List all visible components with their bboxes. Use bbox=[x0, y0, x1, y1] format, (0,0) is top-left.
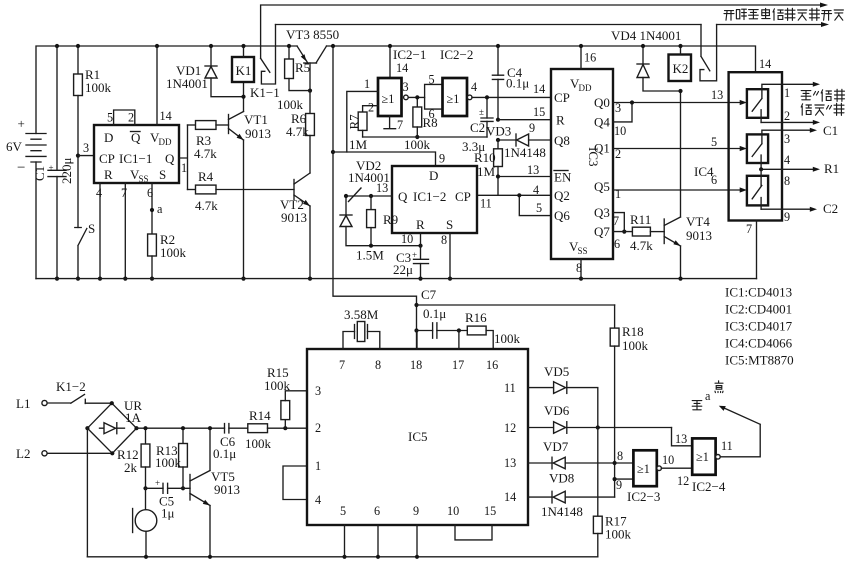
wire: IC5 pin 6 to ground bbox=[377, 525, 379, 557]
relay contact K1-2 bbox=[56, 379, 86, 403]
resistor R8 100k bbox=[404, 97, 438, 152]
relay contact K1-1 bbox=[250, 25, 280, 101]
svg-text:1: 1 bbox=[615, 187, 621, 201]
svg-text:9: 9 bbox=[439, 152, 445, 166]
wire: branch to IC3 Q6 pin5 bbox=[519, 195, 551, 215]
wire: sw3 pin 9 out to C2 bbox=[761, 208, 810, 210]
phone line A (top) with arrow bbox=[261, 5, 820, 58]
wire: IC4 pin 7 to ground bbox=[756, 221, 758, 279]
svg-text:VD7: VD7 bbox=[543, 439, 569, 454]
svg-text:CP: CP bbox=[455, 189, 471, 204]
svg-text:DD: DD bbox=[159, 137, 172, 147]
junction dot VT4 emitter/ground bbox=[678, 277, 682, 281]
terminal L2 bbox=[16, 446, 47, 461]
svg-text:4: 4 bbox=[315, 493, 321, 507]
transistor VT3 8550 bbox=[286, 27, 339, 91]
relay coil K2 bbox=[669, 46, 692, 81]
svg-text:1μ: 1μ bbox=[161, 506, 175, 521]
junction dots bridge corners bbox=[110, 401, 114, 405]
junction dot VD7/R18 bbox=[613, 461, 617, 465]
svg-text:0.1μ: 0.1μ bbox=[423, 306, 446, 321]
wire: IC1-1 pin 6 bbox=[151, 183, 153, 234]
svg-text:14: 14 bbox=[759, 57, 771, 71]
wire: K1-2 to bridge bbox=[85, 402, 112, 404]
svg-text:R9: R9 bbox=[383, 212, 398, 227]
analog switch IC4 bbox=[729, 72, 782, 220]
svg-text:9: 9 bbox=[529, 121, 535, 135]
svg-text:IC5: IC5 bbox=[408, 429, 428, 444]
parts list bbox=[725, 285, 794, 368]
wire: IC2-2 output to IC3 CP pin 14 bbox=[472, 96, 551, 98]
wire: L1 to K1-2 bbox=[47, 402, 71, 404]
svg-text:SS: SS bbox=[139, 174, 149, 184]
svg-text:1N4001: 1N4001 bbox=[166, 76, 208, 91]
junction dot VT5 collector bbox=[208, 426, 212, 430]
svg-text:10: 10 bbox=[447, 504, 459, 518]
svg-text:R14: R14 bbox=[249, 408, 271, 423]
junction dot VD1/K1 bbox=[241, 95, 245, 99]
terminal L1 bbox=[16, 396, 47, 411]
svg-text:11: 11 bbox=[504, 381, 516, 395]
svg-text:9013: 9013 bbox=[245, 126, 271, 141]
wire: IC1-2 CP pin11 to IC3 Q2 pin4 bbox=[477, 194, 551, 196]
svg-text:13: 13 bbox=[675, 432, 687, 446]
svg-text:IC5:MT8870: IC5:MT8870 bbox=[725, 353, 794, 368]
svg-text:K1−2: K1−2 bbox=[56, 379, 86, 394]
junction dot K2/rail bbox=[678, 44, 682, 48]
wire: IC2-4 output to point a (arrow) bbox=[720, 408, 760, 457]
svg-text:S: S bbox=[446, 217, 453, 232]
svg-text:5: 5 bbox=[711, 135, 717, 149]
svg-text:14: 14 bbox=[533, 82, 545, 96]
wire: IC1-1 pin 14 to rail bbox=[156, 46, 158, 125]
svg-text:4.7k: 4.7k bbox=[286, 124, 309, 139]
svg-text:VD3: VD3 bbox=[486, 124, 511, 139]
junction dot sw2/sw3 tie bbox=[759, 167, 763, 171]
resistor R4 4.7k bbox=[188, 169, 295, 213]
svg-text:R7: R7 bbox=[347, 114, 362, 130]
svg-text:1: 1 bbox=[181, 161, 187, 175]
junction dot VD3/R10 line bbox=[496, 138, 500, 142]
junction dot C4/rail bbox=[496, 44, 500, 48]
wire: IC5 pin 17 bbox=[458, 331, 460, 350]
switch S bbox=[75, 221, 95, 279]
gate IC2-3 bbox=[627, 450, 661, 504]
capacitor C5 1u electrolytic bbox=[146, 478, 191, 521]
diode VD8 bbox=[528, 471, 615, 520]
label leader slash VD2 bbox=[349, 188, 362, 202]
svg-text:100k: 100k bbox=[494, 331, 521, 346]
svg-text:7: 7 bbox=[339, 358, 345, 372]
junction dot R8 bottom bbox=[415, 135, 419, 139]
svg-text:3.58M: 3.58M bbox=[344, 307, 379, 322]
junction dot R12 bottom node bbox=[143, 486, 147, 490]
svg-text:5: 5 bbox=[340, 504, 346, 518]
svg-text:R4: R4 bbox=[198, 169, 214, 184]
switch S1 of IC4 bbox=[747, 89, 768, 122]
svg-text:IC2−2: IC2−2 bbox=[440, 47, 473, 62]
junction dot feed/rail bbox=[331, 44, 335, 48]
wire: switched +V rail (VT3 collector to IC4 pin14) bbox=[327, 46, 756, 72]
svg-text:2: 2 bbox=[368, 101, 374, 115]
resistor R11 4.7k bbox=[630, 212, 664, 253]
svg-text:IC4:CD4066: IC4:CD4066 bbox=[725, 336, 793, 351]
svg-text:11: 11 bbox=[721, 439, 733, 453]
wire: Q1 pin 2 to IC4 sw2 control bbox=[613, 148, 741, 150]
wire: IC2-3 out to IC2-4 pin 12 bbox=[661, 467, 692, 469]
junction dot feed/305 line bbox=[414, 303, 418, 307]
wire: IC3 R pin 15 bbox=[498, 119, 551, 121]
svg-text:R: R bbox=[556, 113, 565, 128]
svg-text:IC2−1: IC2−1 bbox=[393, 47, 426, 62]
junction dot EN line bbox=[496, 174, 500, 178]
svg-text:9: 9 bbox=[616, 478, 622, 492]
resistor R6 4.7k bbox=[286, 91, 314, 173]
wire: IC1-1 pins 5-2 loop bbox=[114, 110, 135, 125]
svg-text:±: ± bbox=[479, 107, 484, 117]
wire: IC1-1 Q output pin 1 bbox=[179, 125, 188, 190]
svg-text:VD4 1N4001: VD4 1N4001 bbox=[611, 28, 681, 43]
junction dot VD5/VD6 bbox=[596, 425, 600, 429]
wire: Q7 pin 6 bbox=[613, 231, 632, 233]
svg-text:VD8: VD8 bbox=[549, 471, 574, 486]
svg-text:4.7k: 4.7k bbox=[195, 198, 218, 213]
svg-text:15: 15 bbox=[484, 504, 496, 518]
svg-text:7: 7 bbox=[613, 214, 619, 228]
svg-text:R: R bbox=[416, 217, 425, 232]
svg-text:K2: K2 bbox=[673, 61, 689, 76]
resistor R18 100k bbox=[610, 305, 648, 497]
junction dot VD4/K2 bbox=[678, 89, 682, 93]
svg-text:1N4148: 1N4148 bbox=[504, 145, 546, 160]
svg-text:C2: C2 bbox=[470, 120, 485, 135]
svg-text:9: 9 bbox=[784, 210, 790, 224]
junction dot VD2 line / R pin bbox=[418, 244, 422, 248]
junction dot pin9 bbox=[613, 477, 617, 481]
svg-text:6: 6 bbox=[374, 504, 380, 518]
svg-text:Q7: Q7 bbox=[594, 224, 610, 239]
resistor R16 100k bbox=[465, 310, 521, 349]
wire: Q3 pin 7 join bbox=[613, 213, 624, 232]
svg-text:2: 2 bbox=[784, 109, 790, 123]
svg-text:Q4: Q4 bbox=[594, 115, 610, 130]
resistor R1 100k bbox=[74, 46, 112, 228]
counter IC3 bbox=[551, 69, 613, 259]
svg-text:8: 8 bbox=[441, 233, 447, 247]
svg-text:11: 11 bbox=[480, 197, 492, 211]
svg-text:5: 5 bbox=[429, 73, 435, 87]
svg-text:≥1: ≥1 bbox=[382, 92, 395, 106]
svg-text:CP: CP bbox=[554, 90, 570, 105]
diode VD7 bbox=[528, 439, 633, 469]
resistor R7 1M bbox=[347, 112, 368, 152]
svg-text:EN: EN bbox=[554, 170, 572, 185]
svg-text:a: a bbox=[705, 389, 711, 403]
wire: sw2 pin 4 out to R1 bbox=[761, 168, 813, 170]
diode VD3 1N4148 bbox=[486, 124, 551, 161]
wire: IC5 pins 1-4 loop bbox=[283, 466, 307, 500]
svg-text:a: a bbox=[157, 202, 163, 216]
wire: Q4 pin 10 join bbox=[613, 103, 632, 122]
text: to point a bbox=[692, 381, 723, 410]
diode VD4 bbox=[637, 46, 681, 91]
svg-text:4: 4 bbox=[96, 186, 102, 200]
svg-text:4.7k: 4.7k bbox=[194, 146, 217, 161]
transistor VT4 9013 bbox=[664, 91, 712, 279]
svg-text:D: D bbox=[104, 130, 113, 145]
wire: Q5 pin 1 to IC4 sw3 control bbox=[613, 189, 741, 191]
svg-text:9013: 9013 bbox=[214, 482, 240, 497]
wire: IC2-3 pin 9 input bbox=[615, 478, 634, 480]
diode VD2 1N4001 bbox=[340, 158, 421, 246]
transistor VT5 9013 bbox=[190, 428, 240, 557]
gate IC2-1 (CD4001 NOR) bbox=[378, 78, 408, 116]
svg-text:13: 13 bbox=[527, 163, 539, 177]
svg-text:8: 8 bbox=[375, 358, 381, 372]
capacitor C1 220u electrolytic bbox=[32, 46, 74, 279]
diode VD1 1N4001 bbox=[166, 46, 244, 97]
wire: sw2 pin 3 out to C1 bbox=[762, 130, 810, 134]
svg-text:4: 4 bbox=[471, 80, 477, 94]
junction dot R9 top bbox=[369, 194, 373, 198]
svg-text:+: + bbox=[412, 250, 417, 260]
svg-text:8: 8 bbox=[617, 449, 623, 463]
svg-text:IC2−4: IC2−4 bbox=[692, 479, 726, 494]
svg-text:1: 1 bbox=[364, 77, 370, 91]
svg-text:16: 16 bbox=[486, 358, 498, 372]
junction dot R13 bottom bbox=[181, 486, 185, 490]
junction dot R9 bottom bbox=[369, 244, 373, 248]
svg-text:8: 8 bbox=[576, 261, 582, 275]
wire: bridge minus to ground bus bbox=[86, 428, 88, 557]
svg-text:D: D bbox=[429, 168, 438, 183]
svg-text:VD5: VD5 bbox=[544, 364, 569, 379]
svg-text:C1: C1 bbox=[823, 123, 838, 138]
junction dot pin17/C7 line bbox=[457, 328, 461, 332]
resistor R9 1.5M bbox=[356, 196, 398, 263]
svg-text:+: + bbox=[18, 116, 25, 131]
svg-text:6V: 6V bbox=[6, 139, 23, 154]
wire: IC5 pin 5 to ground bbox=[344, 525, 346, 557]
svg-text:4: 4 bbox=[784, 153, 790, 167]
svg-text:1: 1 bbox=[784, 86, 790, 100]
svg-text:IC2:CD4001: IC2:CD4001 bbox=[725, 302, 792, 317]
junction dot C3/ground bbox=[418, 277, 422, 281]
svg-text:0.1μ: 0.1μ bbox=[213, 446, 236, 461]
capacitor C2 3.3u electrolytic bbox=[462, 97, 493, 154]
svg-text:R1: R1 bbox=[824, 161, 839, 176]
svg-text:5: 5 bbox=[536, 201, 542, 215]
wire: sw1 pin 1 out bbox=[762, 84, 813, 89]
wire: IC1-1 pin 7 to ground bbox=[124, 183, 126, 279]
svg-text:4.7k: 4.7k bbox=[630, 238, 653, 253]
junction dot C1/rail bbox=[55, 44, 59, 48]
switch S2 of IC4 bbox=[747, 134, 768, 169]
battery GB 6V bbox=[6, 116, 46, 279]
wire: bottom ground bus bbox=[87, 556, 597, 558]
gate IC2-4 bbox=[692, 438, 726, 494]
svg-text:100k: 100k bbox=[160, 245, 187, 260]
wire: R18 pull line bbox=[417, 304, 615, 306]
svg-text:≥1: ≥1 bbox=[637, 462, 650, 476]
wire: IC5 pins 10-15 loop bbox=[455, 525, 492, 540]
wire: IC1-1 pin 4 to ground bbox=[99, 183, 101, 279]
svg-text:6: 6 bbox=[429, 107, 435, 121]
svg-text:10: 10 bbox=[662, 453, 674, 467]
svg-text:1.5M: 1.5M bbox=[356, 248, 384, 263]
svg-text:2: 2 bbox=[128, 111, 134, 125]
svg-text:Q: Q bbox=[398, 189, 408, 204]
junction dot R1/rail bbox=[76, 44, 80, 48]
junction dot pin14/rail bbox=[155, 44, 159, 48]
wire: IC2-1 pin 1 input bbox=[347, 91, 378, 152]
svg-text:100k: 100k bbox=[622, 338, 649, 353]
resistor R10 1M bbox=[474, 140, 502, 195]
junction dot mic/ground bbox=[144, 555, 148, 559]
diode VD6 bbox=[528, 403, 672, 433]
svg-text:Q1: Q1 bbox=[594, 141, 610, 156]
crystal 3.58M bbox=[343, 307, 380, 349]
svg-text:220μ: 220μ bbox=[59, 158, 74, 185]
junction dot VD1/rail bbox=[209, 44, 213, 48]
transistor VT1 9013 bbox=[229, 82, 272, 279]
svg-text:+: + bbox=[49, 163, 54, 173]
svg-text:100k: 100k bbox=[605, 527, 632, 542]
wire: IC2-2 input fork pins 5,6 bbox=[425, 84, 443, 109]
wire: Q0 pin 3 to IC4 sw1 control bbox=[613, 102, 741, 104]
junction dot VT1 emitter/ground bbox=[241, 277, 245, 281]
wire: bridge plus rail bbox=[137, 427, 225, 429]
svg-text:SS: SS bbox=[578, 246, 588, 256]
wire: VDD feed to lower section bbox=[333, 46, 417, 349]
gate IC2-2 (CD4001 NOR) bbox=[443, 78, 473, 116]
svg-text:7: 7 bbox=[397, 118, 403, 132]
switch S3 of IC4 bbox=[747, 169, 768, 209]
svg-text:100k: 100k bbox=[85, 80, 112, 95]
junction dot feed/IC2-1 pin1 line bbox=[331, 150, 335, 154]
wire: IC1-1 pin 3 (CP) bbox=[78, 155, 94, 157]
wire: 0V bus bbox=[36, 278, 757, 280]
junction dot VD4/rail bbox=[641, 44, 645, 48]
junction dot R1/CP wire bbox=[76, 154, 80, 158]
svg-text:18: 18 bbox=[410, 358, 422, 372]
svg-text:0.1μ: 0.1μ bbox=[506, 76, 529, 91]
svg-text:L1: L1 bbox=[16, 396, 30, 411]
relay coil K1 bbox=[232, 46, 254, 82]
wire: IC3 EN pin 13 bbox=[498, 176, 551, 178]
junction dot R8 top bbox=[415, 95, 419, 99]
wire: +6V left rail (battery + to VT3 emitter) bbox=[36, 46, 297, 134]
flip-flop IC1-1 (CD4013) bbox=[94, 125, 179, 184]
svg-text:2k: 2k bbox=[124, 460, 138, 475]
svg-text:C7: C7 bbox=[421, 287, 437, 302]
junction dot R5/VT3 base bbox=[308, 89, 312, 93]
relay contact K2-1 bbox=[700, 25, 717, 81]
wire: D pin 9 net from VDD feed bbox=[333, 152, 436, 166]
svg-text:Q3: Q3 bbox=[594, 205, 610, 220]
DTMF decoder IC5 bbox=[307, 349, 528, 525]
junction dot feed/C7 line bbox=[414, 328, 418, 332]
svg-text:IC1−2: IC1−2 bbox=[413, 189, 446, 204]
svg-text:IC4: IC4 bbox=[694, 164, 714, 179]
svg-text:15: 15 bbox=[533, 105, 545, 119]
transistor VT2 9013 bbox=[280, 173, 310, 279]
resistor R2 100k bbox=[148, 232, 187, 279]
phone line C (K2-1 to hook switch) with arrow bbox=[717, 24, 821, 26]
text: connect in parallel to telephone hook switch bbox=[724, 8, 843, 20]
svg-text:2: 2 bbox=[615, 147, 621, 161]
svg-text:3: 3 bbox=[403, 80, 409, 94]
svg-text:C2: C2 bbox=[823, 201, 838, 216]
svg-text:VT3 8550: VT3 8550 bbox=[286, 27, 339, 42]
svg-text:R18: R18 bbox=[622, 324, 644, 339]
resistor R14 100k bbox=[245, 408, 307, 451]
svg-text:13: 13 bbox=[711, 88, 723, 102]
junction dot C2 top bbox=[485, 95, 489, 99]
svg-text:+: + bbox=[155, 478, 160, 488]
node a bbox=[150, 202, 163, 216]
capacitor C4 0.1u bbox=[492, 46, 529, 120]
svg-text:9013: 9013 bbox=[281, 210, 307, 225]
svg-text:3: 3 bbox=[784, 132, 790, 146]
svg-text:1N4001: 1N4001 bbox=[348, 170, 390, 185]
bridge rectifier UR 1A bbox=[87, 398, 142, 453]
svg-text:VT1: VT1 bbox=[244, 112, 268, 127]
svg-text:R: R bbox=[104, 167, 113, 182]
resistor R12 2k bbox=[117, 428, 150, 488]
svg-text:4: 4 bbox=[533, 183, 539, 197]
wire: IC2-1 out to IC2-2 in bbox=[408, 96, 424, 98]
svg-text:S: S bbox=[88, 221, 95, 236]
svg-text:Q6: Q6 bbox=[554, 208, 570, 223]
svg-text:7: 7 bbox=[746, 222, 752, 236]
wire: oscillator RC line bbox=[363, 136, 487, 138]
wire: IC2-1 pin 2 input bbox=[363, 106, 378, 112]
wire: IC5 pin 9 to ground bbox=[416, 525, 418, 557]
svg-text:100k: 100k bbox=[245, 436, 272, 451]
svg-text:100k: 100k bbox=[277, 97, 304, 112]
svg-text:100k: 100k bbox=[155, 455, 182, 470]
svg-text:100k: 100k bbox=[404, 137, 431, 152]
svg-text:IC1−1: IC1−1 bbox=[119, 151, 152, 166]
junction dot C4/R line bbox=[496, 118, 500, 122]
resistor R3 4.7k bbox=[188, 121, 229, 161]
svg-text:100k: 100k bbox=[264, 378, 291, 393]
resistor R15 100k bbox=[264, 365, 307, 428]
svg-text:1M: 1M bbox=[477, 164, 496, 179]
svg-text:CP: CP bbox=[99, 151, 115, 166]
svg-text:R10: R10 bbox=[474, 150, 496, 165]
svg-text:L2: L2 bbox=[16, 446, 30, 461]
svg-text:S: S bbox=[159, 167, 166, 182]
text: to "abbreviated-dial recall" key bbox=[801, 89, 844, 115]
junction dot R14/R15 node bbox=[283, 426, 287, 430]
svg-text:17: 17 bbox=[452, 358, 464, 372]
microphone BM bbox=[133, 488, 157, 557]
junction dot VD2/Q line bbox=[344, 194, 348, 198]
svg-text:3: 3 bbox=[315, 384, 321, 398]
svg-text:12: 12 bbox=[504, 421, 516, 435]
capacitor C3 22u electrolytic bbox=[393, 250, 429, 279]
svg-text:3: 3 bbox=[615, 101, 621, 115]
wire: IC5 pin 18 bbox=[416, 331, 418, 350]
wire: L2 to bridge bottom bbox=[47, 452, 112, 454]
junction dot R12 top bbox=[143, 426, 147, 430]
junction dot VT2 emitter/ground bbox=[308, 277, 312, 281]
wire: sw1 pin 2 out bbox=[761, 121, 813, 123]
svg-text:14: 14 bbox=[504, 490, 516, 504]
flip-flop IC1-2 (CD4013) bbox=[392, 166, 477, 233]
